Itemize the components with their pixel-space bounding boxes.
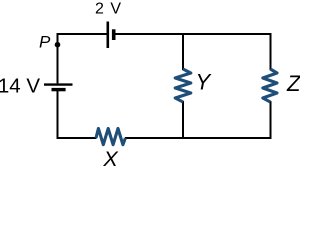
resistor X <box>96 129 125 145</box>
battery V2 (2 V) short plate <box>112 29 116 40</box>
svg-text:Z: Z <box>286 71 300 96</box>
node P (junction dot) <box>55 42 61 48</box>
wire: top-left segment from corner to battery <box>57 33 107 35</box>
svg-text:14 V: 14 V <box>0 74 40 97</box>
battery V1 (14 V) long plate <box>44 83 73 85</box>
svg-text:2 V: 2 V <box>95 1 122 18</box>
svg-text:P: P <box>39 33 51 52</box>
wire: bottom-right segment from resistor X to bottom-right corner <box>125 137 271 139</box>
wire: left vertical lower segment (14 V battery to bottom-left corner) <box>57 91 59 139</box>
wire: middle branch upper segment from top wire to resistor Y <box>182 33 184 70</box>
battery V1 (14 V) short plate <box>52 88 66 91</box>
resistor Z <box>263 69 277 102</box>
svg-text:X: X <box>102 147 119 171</box>
wire: middle branch lower segment from resistor Y to bottom wire <box>182 101 184 139</box>
battery V2 (2 V) long plate <box>107 22 110 49</box>
wire: top-right segment from battery to top-right corner <box>115 33 270 35</box>
svg-text:Y: Y <box>196 70 212 95</box>
wire: right vertical upper segment to resistor Z <box>270 33 272 70</box>
wire: left vertical upper segment (corner through node P to 14 V battery) <box>57 33 59 83</box>
resistor Y <box>175 69 191 102</box>
wire: bottom-left segment to resistor X <box>57 137 97 139</box>
wire: right vertical lower segment from resistor Z <box>270 101 272 139</box>
